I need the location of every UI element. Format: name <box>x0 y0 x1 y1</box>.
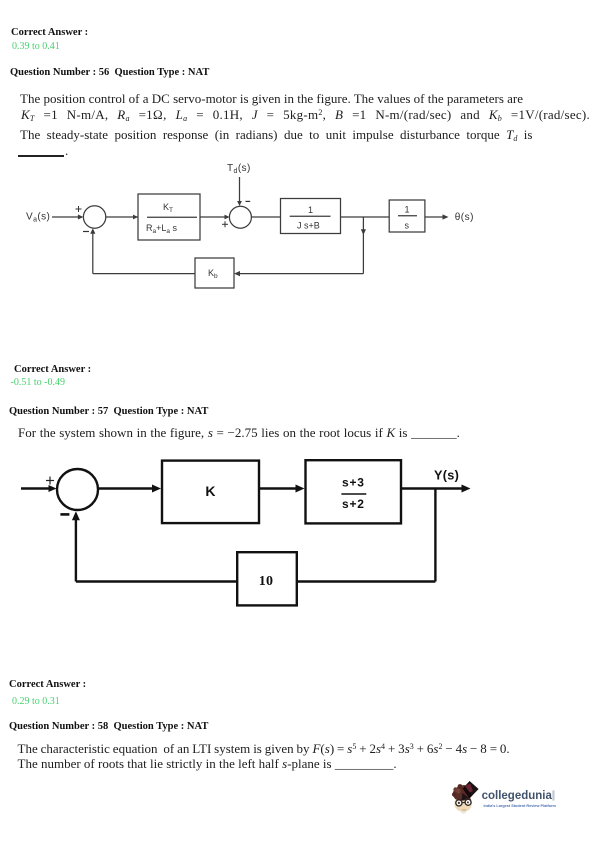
block K <box>162 461 259 523</box>
wire S3 to block K <box>99 485 162 493</box>
wire output Y(s) <box>402 485 471 493</box>
summing junction S1 <box>83 206 105 228</box>
face <box>454 795 472 811</box>
label s+2 denominator <box>342 497 365 511</box>
svg-text:1: 1 <box>405 205 410 215</box>
Q56 paragraph <box>20 92 523 105</box>
label Ra+La s denominator <box>146 223 178 235</box>
label J s+B denominator <box>297 221 320 231</box>
wire feedback up into S1 <box>90 228 95 273</box>
Q58 paragraph <box>18 742 510 755</box>
block 10 <box>237 552 297 605</box>
mouth/chin <box>462 809 466 812</box>
fraction bar in KT block <box>147 216 197 218</box>
label Y(s) <box>434 469 459 483</box>
node theta(s) output label <box>455 212 474 223</box>
block Kb <box>195 258 234 288</box>
svg-text:collegedunia: collegedunia <box>482 790 553 802</box>
svg-text:India's Largest Student Review: India's Largest Student Review Platform <box>484 804 557 808</box>
wire Kb to left <box>93 273 195 275</box>
wire 1/s to output <box>425 214 449 219</box>
label 1 numerator of 1/s <box>405 205 410 215</box>
fraction bar in Js+B block <box>290 215 331 217</box>
wire S2 to block 1/(Js+B) <box>251 216 280 218</box>
svg-text:J s+B: J s+B <box>297 221 320 231</box>
plus sign at S2 input <box>222 221 228 227</box>
wire 10 to left <box>76 580 236 582</box>
plus sign at S1 input <box>76 206 82 212</box>
svg-text:θ(s): θ(s) <box>455 212 474 223</box>
label K <box>205 483 215 499</box>
wire tap down from output <box>434 489 436 582</box>
label Kb <box>208 268 218 280</box>
svg-text:Kb: Kb <box>208 268 218 280</box>
Section Q58 header <box>9 680 86 691</box>
wire S1 to block KT <box>106 215 138 220</box>
Section Q56 header <box>11 28 88 39</box>
wire feedback up into S3 <box>72 511 80 581</box>
svg-text:s+2: s+2 <box>342 497 365 511</box>
svg-text:Ra+La s: Ra+La s <box>146 223 178 235</box>
svg-text:Va(s): Va(s) <box>26 212 50 224</box>
block 1/s <box>389 200 425 232</box>
node Td(s) disturbance label <box>227 163 251 175</box>
svg-text:10: 10 <box>259 574 274 589</box>
fraction bar in 1/s block <box>398 215 417 217</box>
wire Js+B block to 1/s block <box>341 216 390 218</box>
block (s+3)/(s+2) <box>306 460 402 523</box>
svg-text:KT: KT <box>163 202 173 214</box>
svg-text:Td(s): Td(s) <box>227 163 251 175</box>
fraction bar in (s+3)/(s+2) block <box>341 493 366 495</box>
eyebrow <box>465 798 471 801</box>
wire K to block (s+3)/(s+2) <box>260 485 305 493</box>
hair <box>453 785 470 801</box>
block KT/(Ra+La s) <box>138 194 200 240</box>
minus sign at S2 top input <box>246 200 251 202</box>
collegedunia logo <box>450 778 570 816</box>
wire KT block to summer S2 <box>200 215 230 220</box>
wire feedback horizontal to Kb <box>234 271 363 276</box>
Q57 paragraph <box>18 426 460 439</box>
svg-text:K: K <box>205 483 215 499</box>
summing junction S3 <box>57 469 98 510</box>
svg-text:s: s <box>405 221 410 231</box>
plus sign at S3 input <box>46 477 54 485</box>
label 1 numerator <box>308 205 313 215</box>
label KT numerator <box>163 202 173 214</box>
label s denominator <box>405 221 410 231</box>
glasses <box>456 800 462 806</box>
node tap with down arrow <box>361 217 366 274</box>
wire feedback to block 10 <box>298 580 435 582</box>
label 10 <box>259 574 274 589</box>
minus sign at S3 feedback <box>60 513 69 516</box>
block 1/(Js+B) <box>281 199 341 234</box>
summing junction S2 <box>229 206 251 228</box>
wire Va(s) to summer S1 <box>52 215 83 220</box>
minus sign at S1 feedback input <box>83 231 89 233</box>
svg-text:1: 1 <box>308 205 313 215</box>
wire input to summer S3 <box>21 485 57 492</box>
wire Td(s) down into S2 <box>237 177 242 206</box>
node Va(s) input label <box>26 212 50 224</box>
Section Q57 header <box>14 365 91 376</box>
label s+3 numerator <box>342 476 365 490</box>
svg-text:s+3: s+3 <box>342 476 365 490</box>
graduation cap <box>463 781 479 799</box>
svg-text:Y(s): Y(s) <box>434 469 459 483</box>
